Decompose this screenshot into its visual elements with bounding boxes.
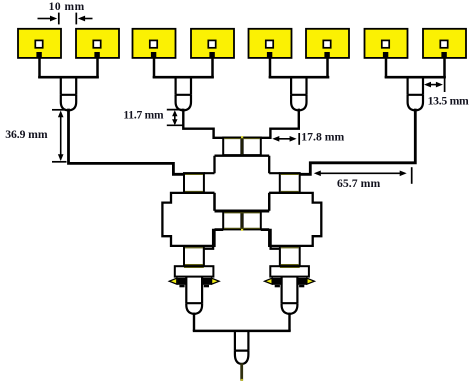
dimension 10 mm bbox=[38, 1, 93, 25]
power divider D4 (patches 7-8) bbox=[385, 77, 446, 110]
dimension 65.7 mm bbox=[314, 167, 412, 190]
power divider D1 (patches 1-2) bbox=[38, 77, 99, 110]
node: central square ring bbox=[215, 156, 270, 211]
wire right arm of ring bbox=[269, 173, 280, 193]
wire feed stub P3 bbox=[153, 57, 156, 79]
wire feed stub P4 bbox=[211, 57, 214, 79]
wire J2 output bbox=[288, 313, 290, 331]
connector J1 (left port assembly) bbox=[169, 266, 219, 314]
svg-text:65.7 mm: 65.7 mm bbox=[337, 177, 380, 190]
transformer square S4 (above right connector) bbox=[280, 246, 300, 266]
hybrid cross X2 (right) bbox=[269, 193, 321, 246]
svg-text:17.8 mm: 17.8 mm bbox=[301, 131, 344, 144]
patch antenna P1 bbox=[18, 29, 61, 58]
dimension 13.5 mm bbox=[424, 78, 469, 107]
power divider D3 (patches 5-6) bbox=[269, 77, 330, 110]
transformer square S2 (right of ring) bbox=[280, 173, 300, 193]
transformer square S3 (above left connector) bbox=[184, 246, 204, 266]
wire feed stub P2 bbox=[96, 57, 99, 79]
wire T2 right step-out bbox=[261, 230, 280, 266]
power combiner D5 (final) bbox=[193, 331, 291, 364]
transformer block T1 (top, double square) bbox=[223, 136, 261, 155]
svg-text:13.5 mm: 13.5 mm bbox=[428, 94, 469, 107]
wire T2 left step-out bbox=[204, 230, 224, 266]
wire D4 output to right long line bbox=[299, 109, 415, 175]
wire feed stub P6 bbox=[326, 57, 329, 79]
wire left arm of ring bbox=[204, 173, 215, 193]
patch antenna P5 bbox=[249, 29, 292, 58]
transformer square S1 (left of ring) bbox=[184, 173, 204, 193]
wire D3 output to top T-junction bbox=[260, 109, 299, 138]
wire D2 output to top T-junction bbox=[183, 109, 224, 138]
wire feed stub P5 bbox=[269, 57, 272, 79]
patch antenna P6 bbox=[306, 29, 349, 58]
patch antenna P4 bbox=[191, 29, 234, 58]
wire D1 output to left long line bbox=[69, 109, 185, 175]
connector J2 (right port assembly) bbox=[265, 266, 315, 314]
wire output stub / port bbox=[240, 363, 243, 380]
wire X1 right arm to bottom block bbox=[215, 211, 224, 229]
wire feed stub P8 bbox=[443, 57, 446, 79]
patch antenna P2 bbox=[76, 29, 119, 58]
svg-text:36.9 mm: 36.9 mm bbox=[5, 128, 48, 141]
transformer block T2 (bottom, double square) bbox=[223, 212, 261, 231]
patch antenna P8 bbox=[423, 29, 466, 58]
dimension 36.9 mm bbox=[5, 110, 66, 162]
wire feed stub P7 bbox=[385, 57, 388, 79]
svg-text:10 mm: 10 mm bbox=[49, 1, 85, 13]
wire J1 output bbox=[193, 313, 195, 331]
wire X2 left arm to bottom block bbox=[261, 211, 270, 229]
svg-text:11.7 mm: 11.7 mm bbox=[123, 110, 164, 122]
dimension 17.8 mm bbox=[272, 131, 344, 145]
patch antenna P7 bbox=[365, 29, 408, 58]
dimension 11.7 mm bbox=[123, 110, 183, 126]
patch antenna P3 bbox=[133, 29, 176, 58]
wire feed stub P1 bbox=[38, 57, 41, 79]
hybrid cross X1 (left) bbox=[162, 193, 214, 246]
power divider D2 (patches 3-4) bbox=[153, 77, 214, 110]
